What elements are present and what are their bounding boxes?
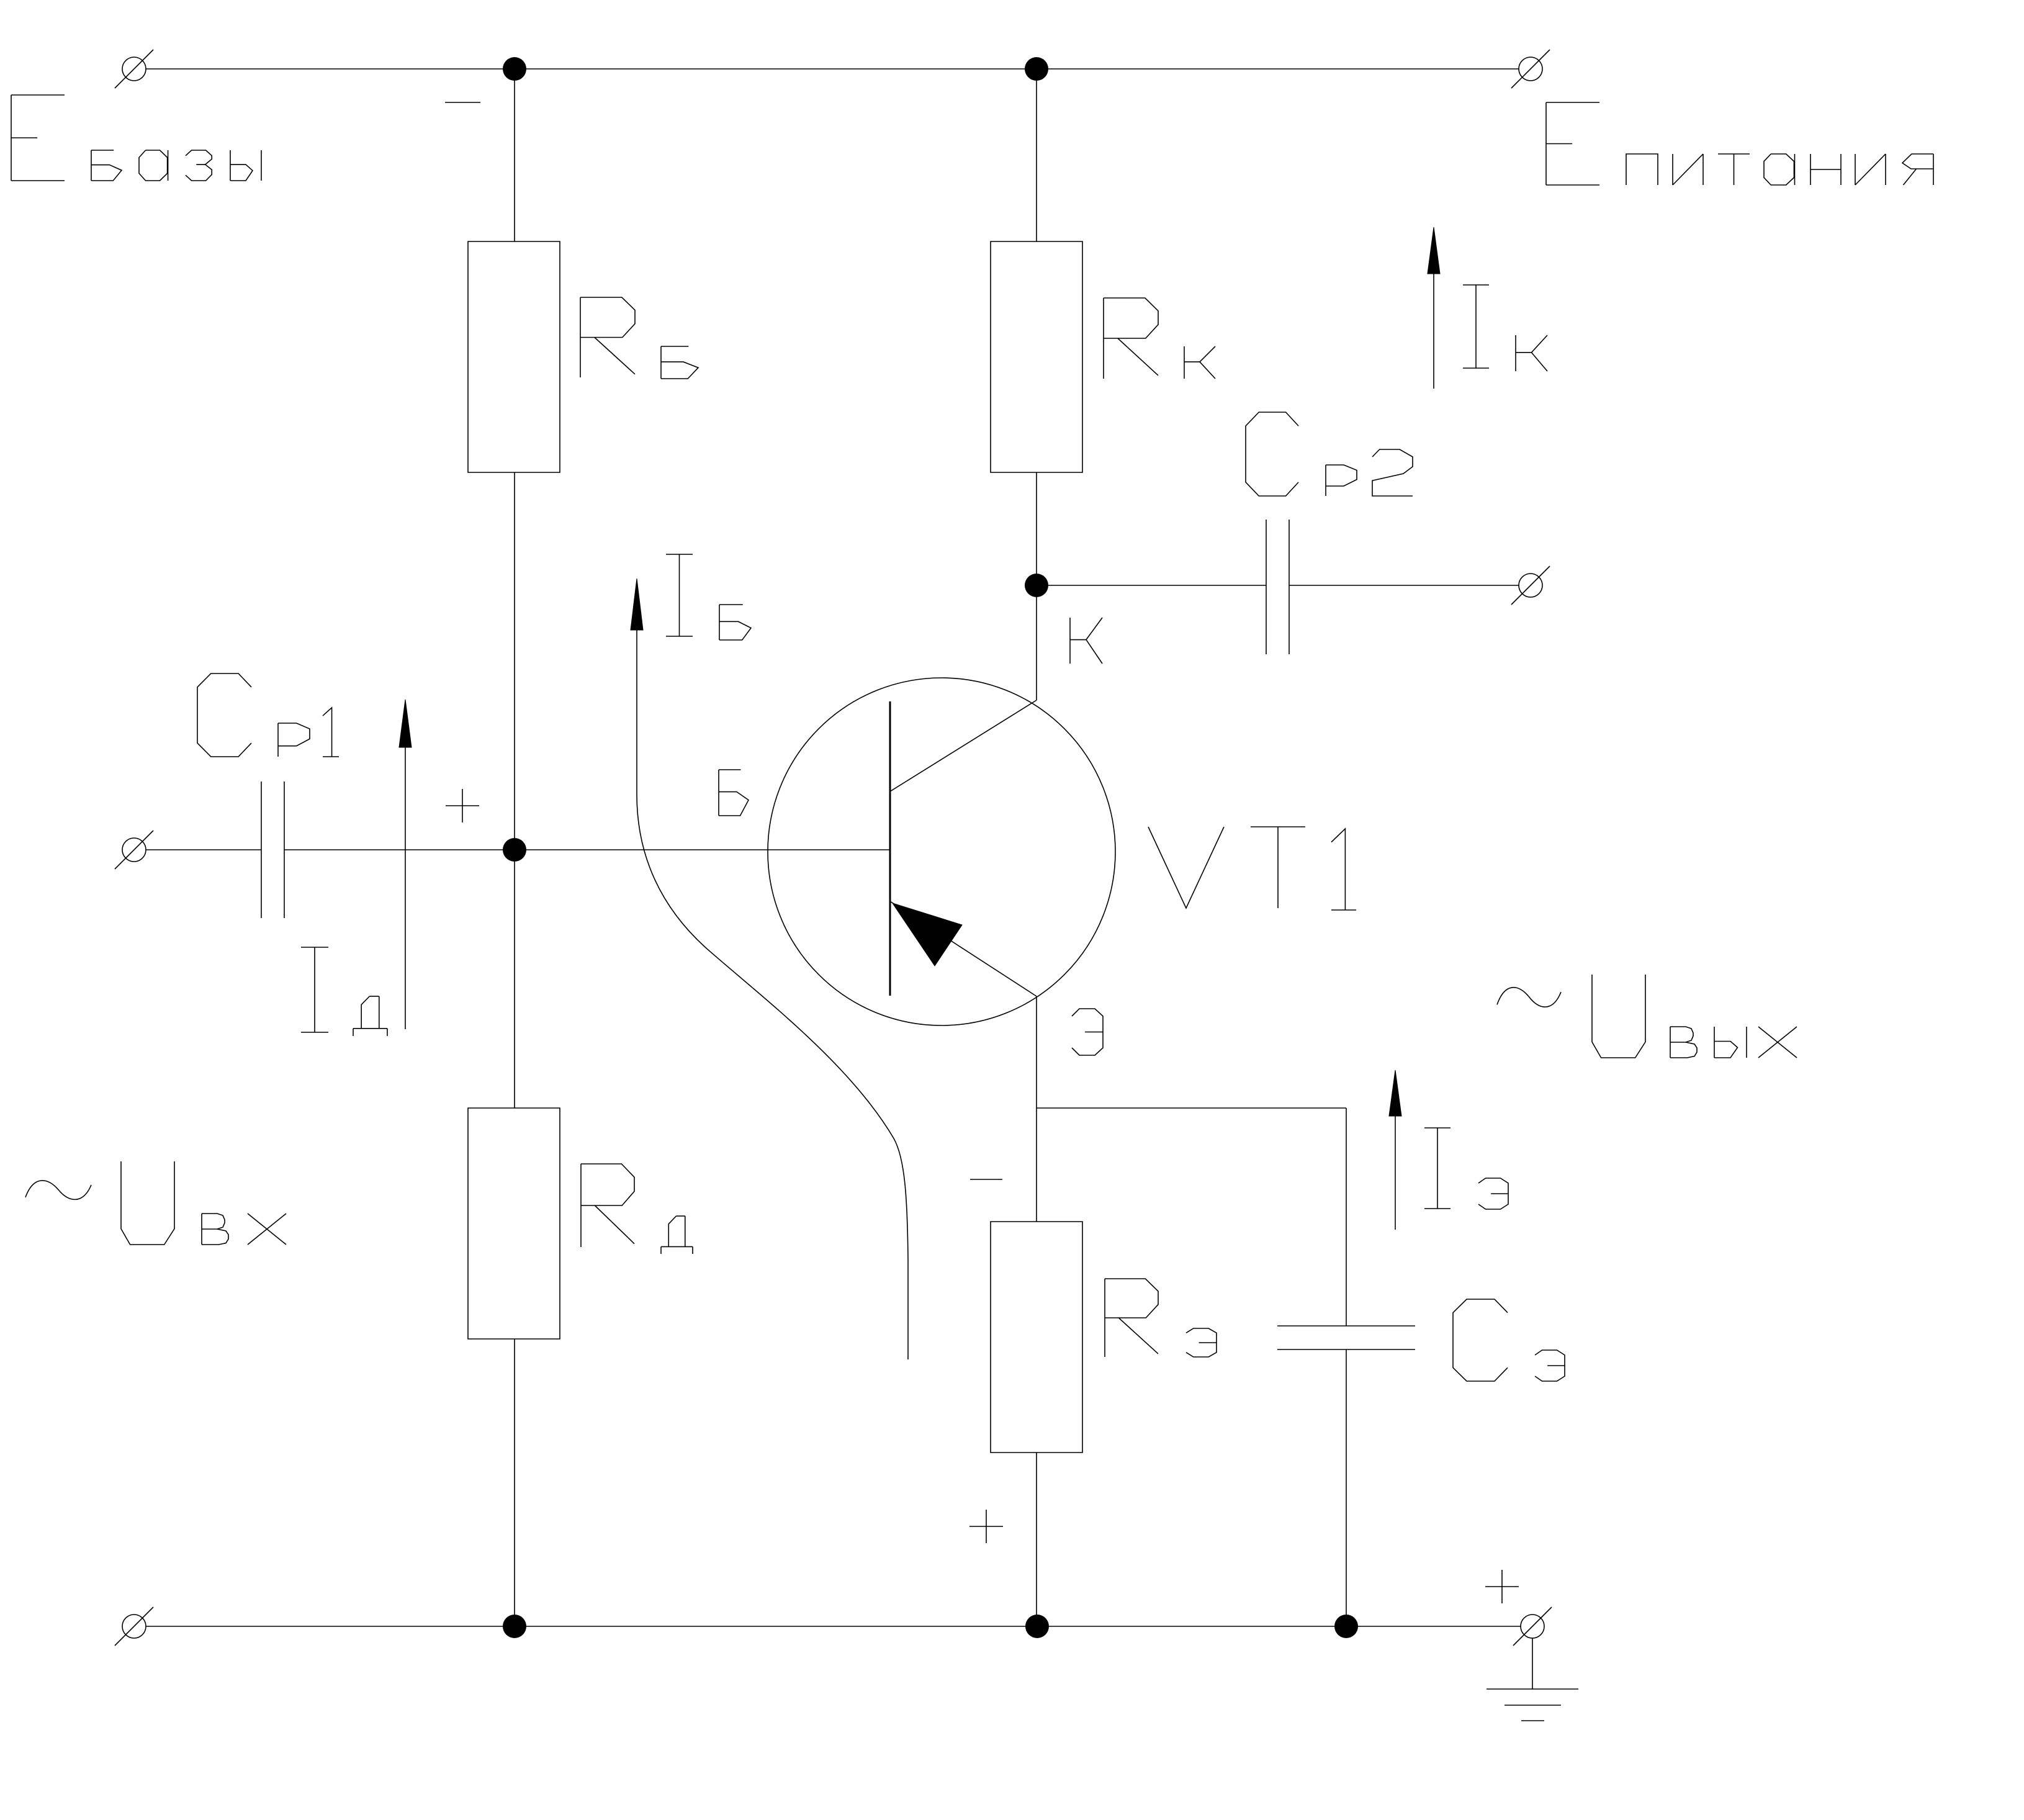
arrow IБ with curved path <box>631 579 908 1359</box>
label U вых <box>1497 975 1797 1058</box>
wire to СЭ <box>1037 1108 1346 1326</box>
arrow IК <box>1428 227 1440 389</box>
terminal (bottom-left) <box>115 1607 153 1646</box>
wire emitter lower <box>1036 1453 1037 1626</box>
ground symbol <box>1487 1638 1578 1721</box>
arrow IД <box>399 700 412 1029</box>
transistor emitter lead <box>890 901 1037 996</box>
node junction collector К <box>1025 574 1048 597</box>
label Е питания <box>1546 102 1933 185</box>
wire top rail <box>146 68 1519 70</box>
transistor collector lead <box>890 700 1037 791</box>
wire <box>1289 585 1519 586</box>
label СР2 <box>1246 412 1413 496</box>
wire <box>514 850 515 1108</box>
label RЭ <box>1105 1279 1217 1357</box>
transistor emitter arrow <box>893 903 962 966</box>
wire emitter <box>1036 996 1037 1222</box>
label СР1 <box>197 673 339 757</box>
resistor RБ <box>468 241 560 472</box>
label VT1 <box>1148 827 1356 910</box>
resistor RД <box>468 1108 560 1339</box>
capacitor СЭ <box>1277 1326 1415 1349</box>
label IБ <box>666 554 751 640</box>
capacitor СР2 <box>1266 520 1289 654</box>
transistor VT1 base bar <box>889 701 891 996</box>
wire <box>1037 585 1266 586</box>
terminal (output, right) <box>1511 566 1550 605</box>
wire collector <box>1036 585 1037 700</box>
pin label К <box>1070 618 1102 664</box>
node junction bottom of СЭ <box>1334 1615 1358 1638</box>
plus sign below RЭ <box>969 1510 1003 1543</box>
terminal (input, left) <box>115 831 153 869</box>
terminal (Е базы, top-left) <box>115 50 153 88</box>
wire <box>1036 472 1037 585</box>
pin label Э <box>1072 1009 1103 1055</box>
terminal (ground, bottom-right) <box>1513 1607 1552 1646</box>
wire <box>1036 69 1037 241</box>
wire <box>284 849 890 850</box>
label U вх <box>25 1161 286 1245</box>
wire <box>514 69 515 241</box>
arrow IЭ <box>1389 1070 1401 1230</box>
plus sign at base node <box>446 789 479 822</box>
capacitor СР1 <box>261 782 284 918</box>
label RБ <box>580 297 698 379</box>
label Е базы <box>11 95 261 181</box>
wire bottom rail <box>146 1626 1521 1627</box>
node junction top of RК <box>1025 57 1048 81</box>
wire <box>146 849 261 850</box>
label IЭ <box>1424 1128 1508 1209</box>
plus sign at ground terminal <box>1485 1570 1519 1603</box>
resistor RЭ <box>991 1222 1082 1453</box>
label RК <box>1104 298 1215 379</box>
pin label Б <box>719 770 749 816</box>
label RД <box>581 1164 693 1254</box>
minus sign at base supply <box>445 102 480 103</box>
node junction bottom of RД <box>503 1615 526 1638</box>
minus sign at emitter <box>970 1179 1002 1180</box>
terminal (Е питания, top-right) <box>1511 50 1550 88</box>
label IК <box>1463 285 1547 371</box>
wire <box>514 472 515 850</box>
label СЭ <box>1453 1299 1565 1381</box>
label IД <box>301 947 387 1036</box>
transistor VT1 body <box>768 678 1115 1025</box>
node junction base input <box>503 838 526 862</box>
wire <box>514 1339 515 1626</box>
resistor RК <box>991 241 1082 472</box>
node junction top of RБ <box>503 57 526 81</box>
node junction bottom of RЭ <box>1025 1615 1049 1638</box>
wire <box>1346 1349 1347 1626</box>
